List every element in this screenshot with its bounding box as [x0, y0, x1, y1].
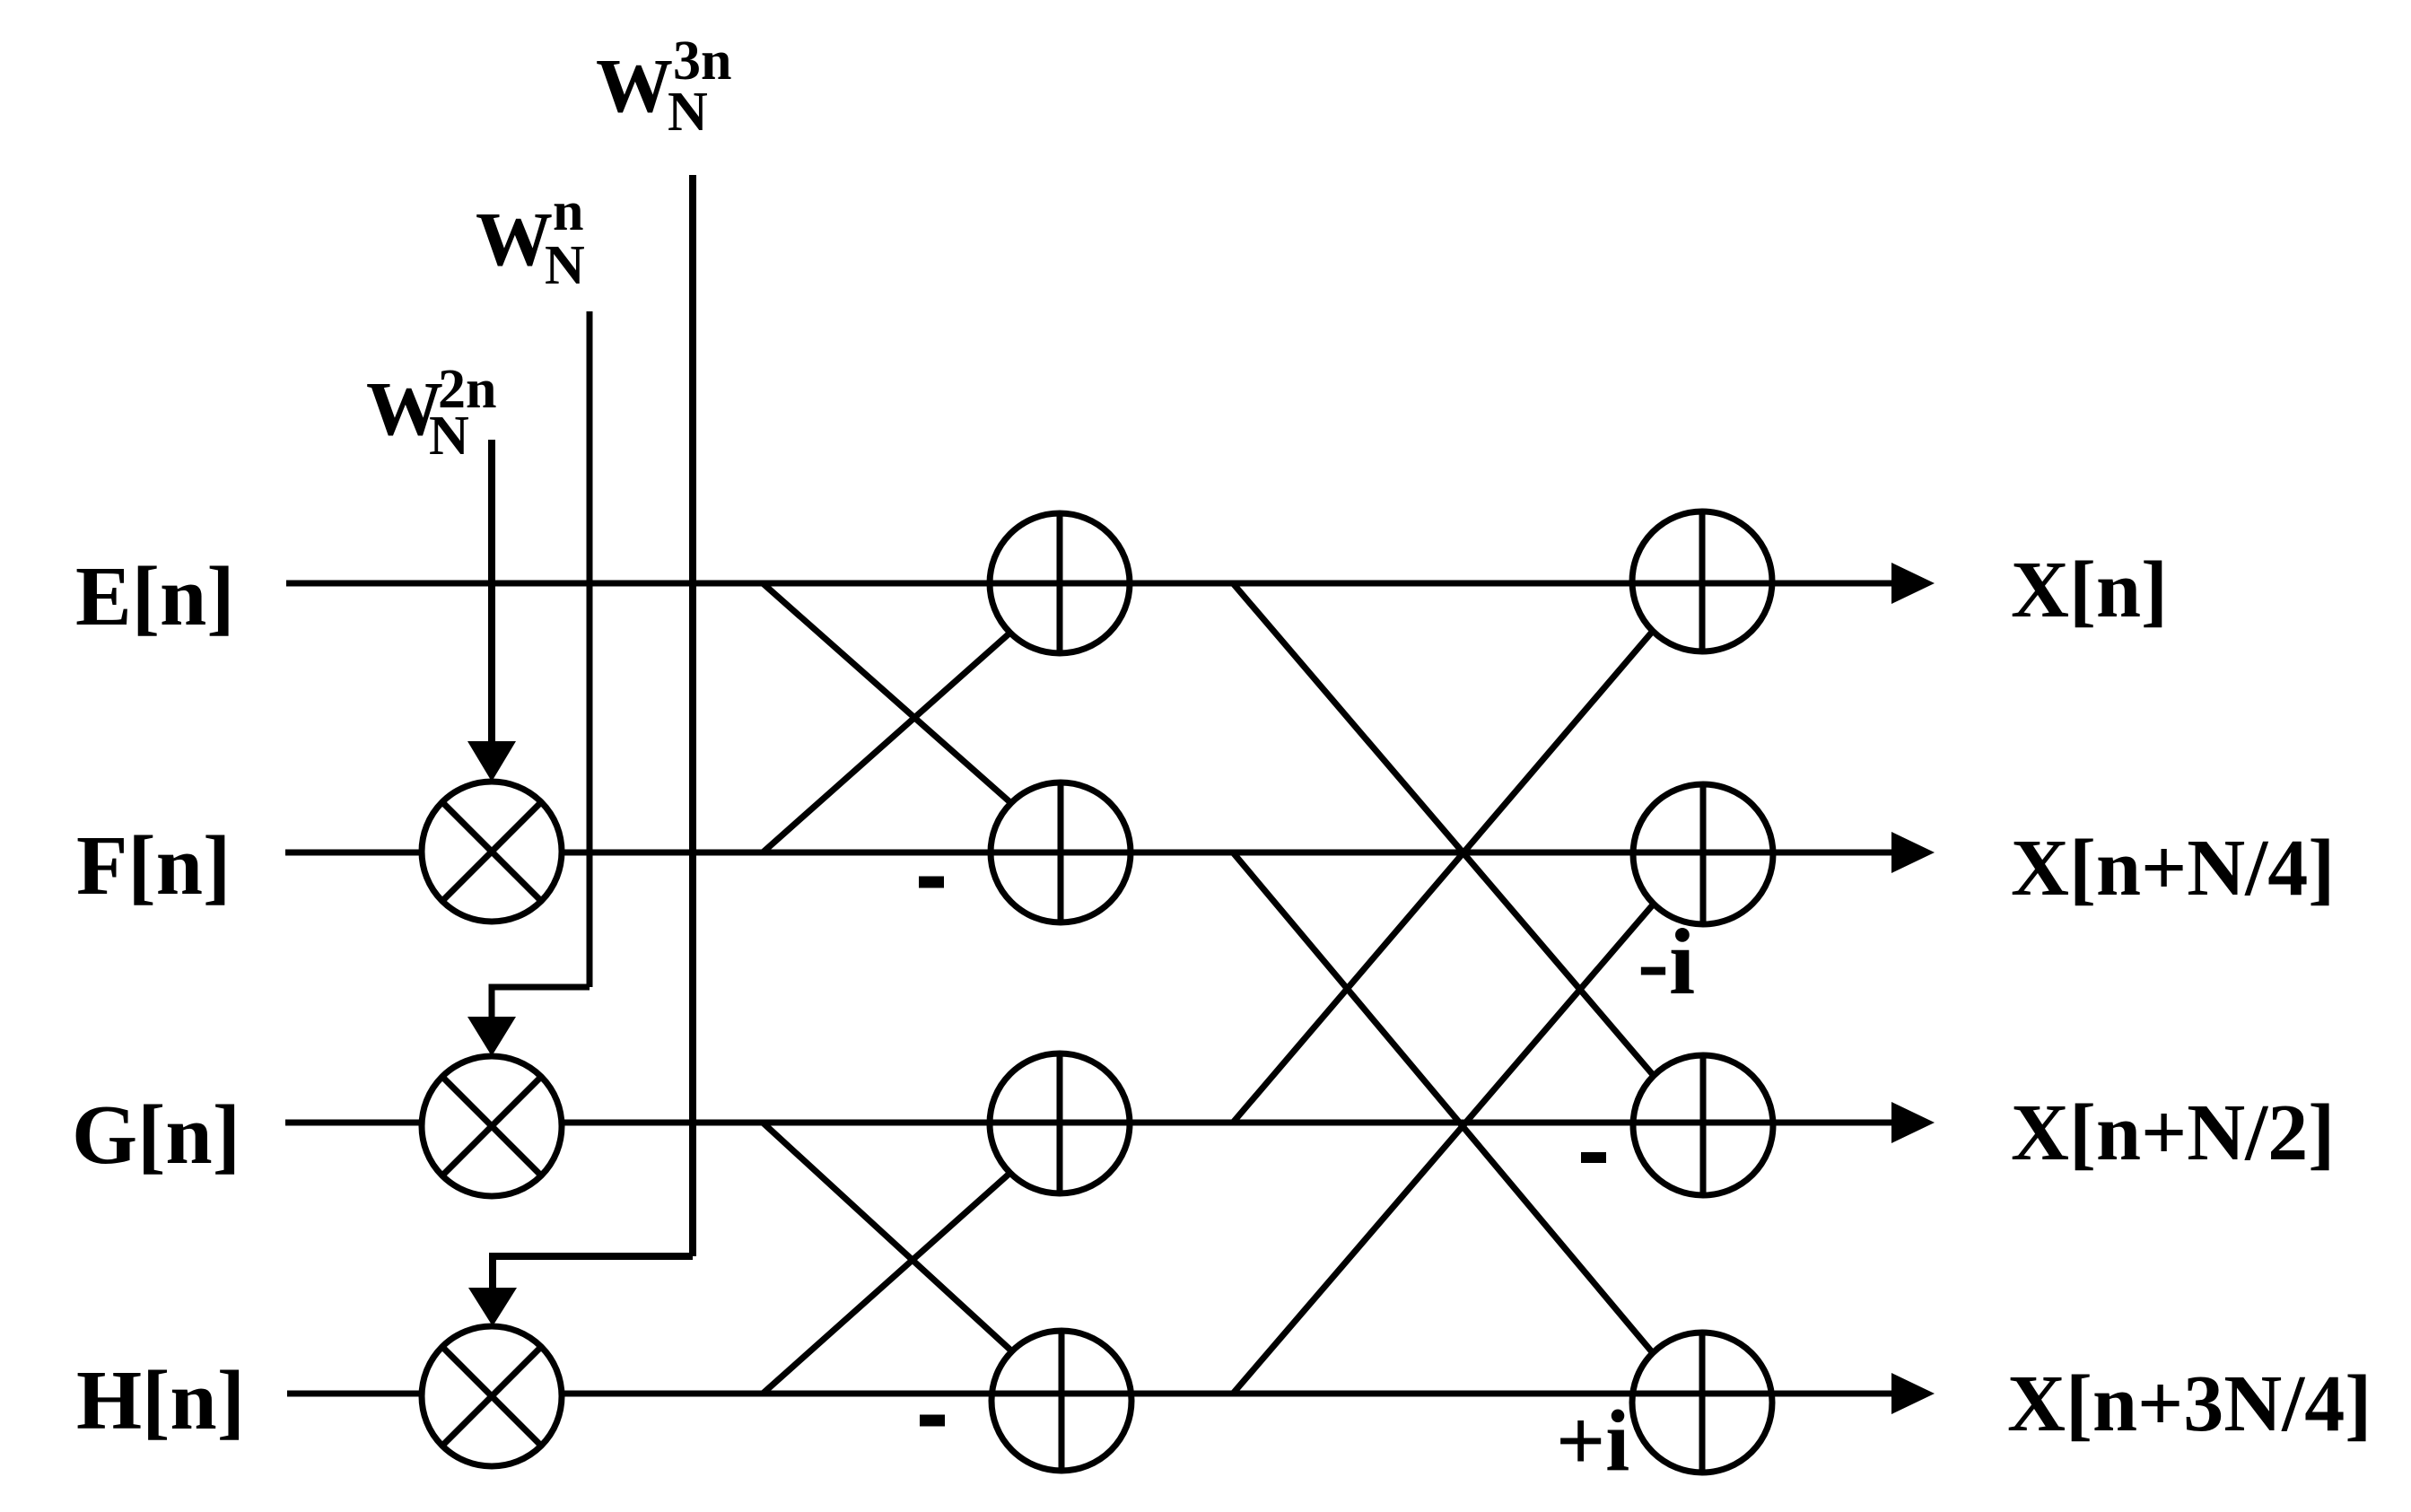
svg-text:X[n]: X[n] [2011, 546, 2168, 634]
svg-text:W: W [596, 42, 673, 128]
svg-text:H[n]: H[n] [76, 1354, 245, 1447]
svg-text:F[n]: F[n] [76, 819, 231, 913]
svg-text:N: N [668, 82, 708, 143]
svg-text:E[n]: E[n] [75, 550, 235, 643]
svg-text:-i: -i [1638, 909, 1695, 1014]
svg-text:N: N [429, 406, 469, 467]
svg-text:X[n+3N/4]: X[n+3N/4] [2007, 1359, 2372, 1448]
svg-text:G[n]: G[n] [72, 1088, 240, 1182]
svg-text:W: W [476, 196, 553, 282]
svg-text:+i: +i [1556, 1393, 1629, 1489]
svg-text:X[n+N/4]: X[n+N/4] [2011, 824, 2335, 913]
svg-text:X[n+N/2]: X[n+N/2] [2011, 1088, 2335, 1177]
svg-text:n: n [553, 181, 583, 242]
svg-text:N: N [545, 235, 585, 296]
